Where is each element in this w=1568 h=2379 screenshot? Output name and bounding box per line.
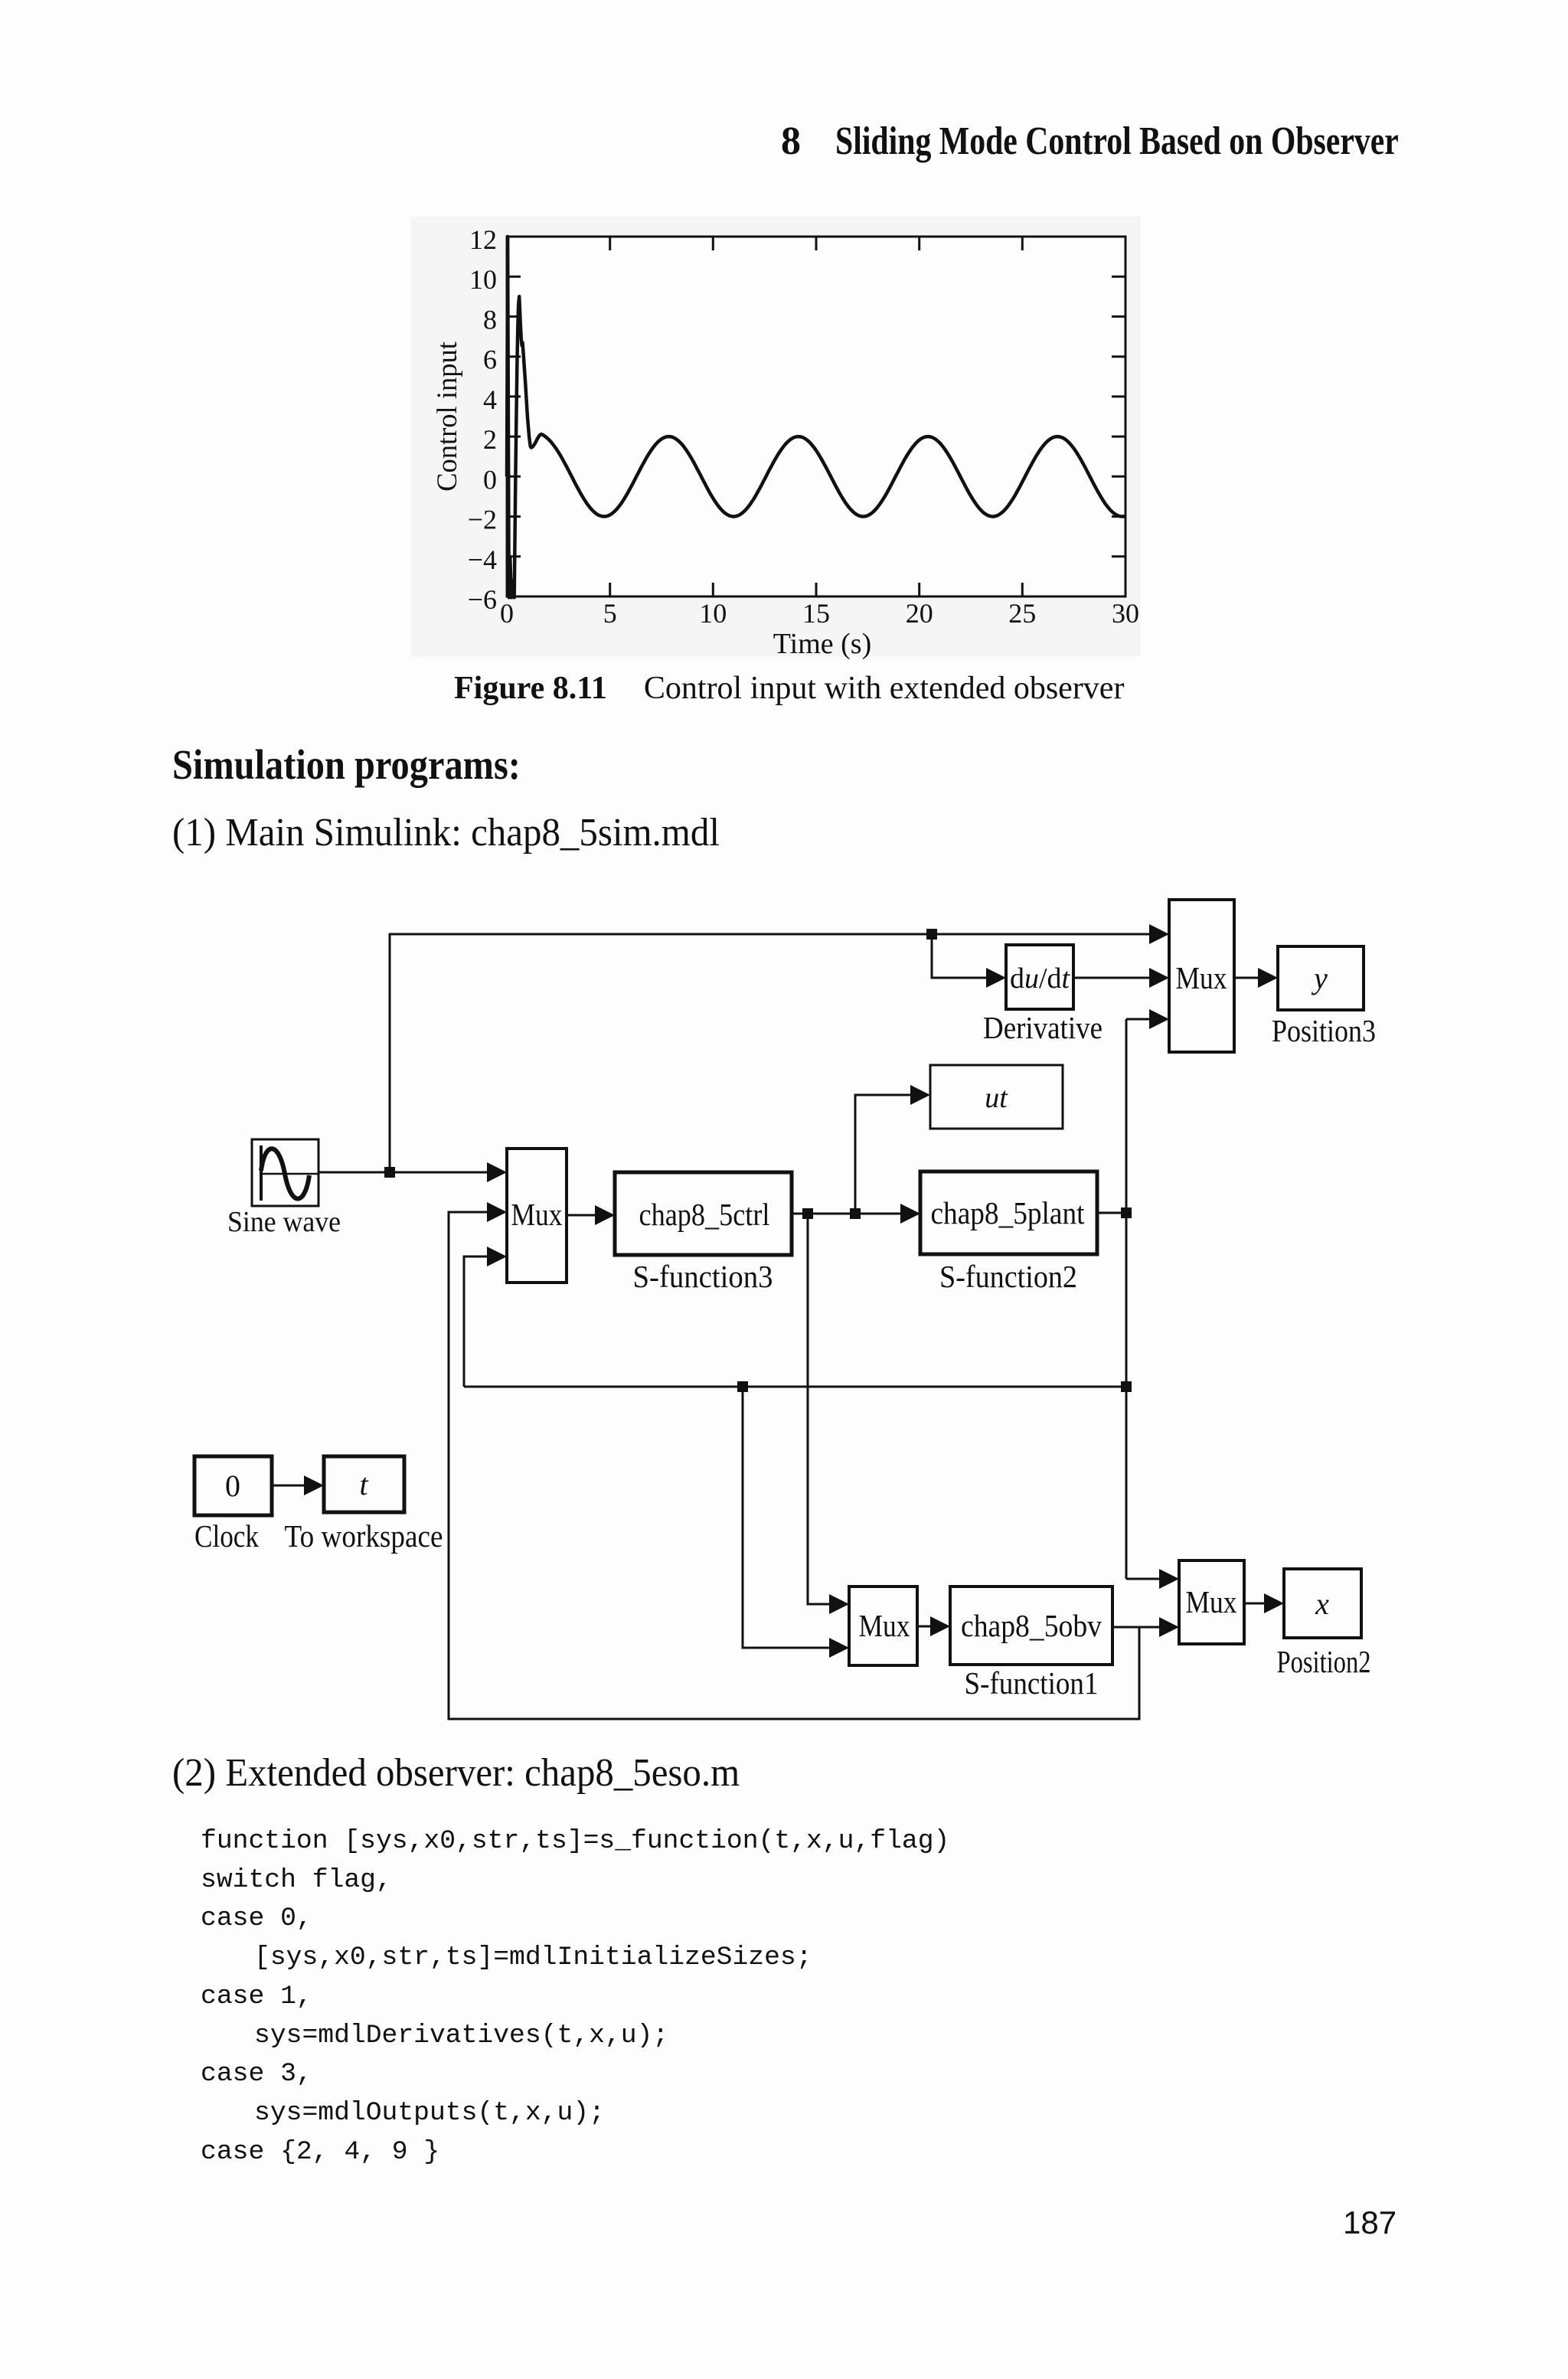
block: Position3 scope y	[1278, 946, 1364, 1010]
node: ctrl output branch to observer mux	[802, 1208, 813, 1219]
node: ctrl output branch to ut scope	[850, 1208, 861, 1219]
svg-text:ut: ut	[985, 1082, 1008, 1114]
svg-text:−2: −2	[468, 505, 497, 535]
block: Mux4 bottom output mux	[1179, 1560, 1244, 1644]
sine wave icon	[260, 1145, 263, 1201]
plot axes box	[507, 237, 1125, 596]
svg-text:Mux: Mux	[859, 1608, 910, 1643]
block: Mux2 observer input mux	[849, 1587, 917, 1665]
svg-text:4: 4	[483, 384, 497, 415]
wire: right vertical bus	[1125, 1019, 1128, 1579]
svg-text:chap8_5obv: chap8_5obv	[961, 1608, 1102, 1643]
svg-text:12: 12	[469, 224, 497, 255]
svg-text:−4: −4	[468, 544, 497, 575]
wire: Clock output to To workspace	[272, 1485, 317, 1487]
svg-text:S-function1: S-function1	[965, 1665, 1099, 1701]
svg-text:To workspace: To workspace	[285, 1518, 443, 1554]
block: du/dt Derivative	[1006, 945, 1073, 1009]
svg-text:Mux: Mux	[1176, 960, 1227, 995]
node: bus junction with feedback line	[1121, 1381, 1132, 1392]
node: top wire branch to derivative	[926, 929, 937, 940]
svg-text:Control input: Control input	[431, 341, 462, 492]
block: chap8_5plant S-function2	[920, 1172, 1097, 1254]
svg-text:6: 6	[483, 345, 497, 375]
axis ticks	[507, 237, 1125, 596]
wire: observer output feedback loop to Mux1 input 2	[449, 1212, 1139, 1719]
svg-text:25: 25	[1008, 598, 1036, 629]
svg-text:S-function3: S-function3	[633, 1259, 773, 1294]
svg-text:10: 10	[699, 598, 727, 629]
wire: ctrl branch down to Mux2 input 1	[808, 1214, 847, 1604]
wire: feedback branch down to Mux2 input 2	[743, 1387, 847, 1648]
wire: Mux3 output to Position3	[1234, 977, 1276, 979]
svg-text:chap8_5plant: chap8_5plant	[931, 1195, 1086, 1230]
block: Mux3 top output mux	[1169, 900, 1234, 1052]
svg-text:10: 10	[469, 264, 497, 295]
svg-text:Position3: Position3	[1272, 1013, 1376, 1048]
wire: du/dt output to Mux3 input 2	[1073, 977, 1167, 979]
wire: sine wave output to Mux1 input 1	[318, 1172, 505, 1174]
svg-text:chap8_5ctrl: chap8_5ctrl	[639, 1197, 770, 1232]
wire: chap8_5obv output to Mux4 input 2	[1112, 1626, 1177, 1629]
svg-text:0: 0	[500, 598, 514, 629]
node: feedback branch junction	[737, 1381, 748, 1392]
block: Clock	[194, 1456, 272, 1515]
wire: Mux2 output to chap8_5obv	[917, 1626, 948, 1628]
control input curve	[507, 237, 1125, 597]
figure scan background	[411, 217, 1141, 657]
page number	[1343, 2207, 1396, 2239]
svg-text:t: t	[359, 1467, 368, 1502]
heading: (2) Extended observer	[172, 1753, 776, 1793]
wire: plant output stub to right bus	[1097, 1212, 1126, 1214]
svg-text:y: y	[1311, 961, 1328, 995]
svg-text:Sine wave: Sine wave	[227, 1206, 341, 1238]
wire: feedback line across	[464, 1386, 1126, 1388]
svg-text:20: 20	[906, 598, 933, 629]
svg-text:Clock: Clock	[194, 1518, 259, 1554]
wire: Mux1 output to chap8_5ctrl	[567, 1214, 612, 1217]
svg-text:Mux: Mux	[1186, 1584, 1237, 1619]
figure caption	[454, 672, 1124, 704]
svg-text:S-function2: S-function2	[939, 1259, 1077, 1294]
svg-text:Time (s): Time (s)	[773, 628, 871, 660]
svg-text:5: 5	[603, 598, 617, 629]
svg-text:15: 15	[802, 598, 830, 629]
block: Sine wave source	[252, 1139, 318, 1206]
svg-text:−6: −6	[468, 584, 497, 615]
svg-text:0: 0	[483, 464, 497, 495]
running head	[781, 122, 1537, 162]
block: Mux1 controller input mux	[507, 1149, 567, 1283]
block: chap8_5obv S-function1	[950, 1587, 1112, 1665]
svg-text:0: 0	[225, 1469, 240, 1503]
wire: bus top into Mux3 input 3	[1126, 1018, 1167, 1021]
svg-text:2: 2	[483, 424, 497, 455]
wire: Mux4 output to Position2	[1244, 1603, 1282, 1605]
wire: chap8_5ctrl output to chap8_5plant	[792, 1213, 918, 1215]
wire: branch up and across top to Mux3 input 1	[390, 934, 1167, 1172]
matlab code listing	[201, 1822, 949, 2171]
block: To workspace t	[324, 1456, 404, 1512]
node: plant output junction on bus	[1121, 1207, 1132, 1218]
svg-text:8: 8	[483, 304, 497, 335]
svg-text:30: 30	[1112, 598, 1139, 629]
block: ut scope	[930, 1065, 1063, 1129]
x tick labels	[500, 598, 1139, 629]
heading: Simulation programs	[172, 743, 568, 786]
node: sine output branch junction	[384, 1167, 395, 1178]
heading: (1) Main Simulink	[172, 813, 754, 853]
y tick labels	[468, 224, 497, 615]
wire: feedback up into Mux1 input 3	[464, 1256, 505, 1387]
wire: bus bottom into Mux4 input 1	[1126, 1578, 1177, 1580]
svg-text:du/dt: du/dt	[1010, 962, 1070, 995]
svg-text:Mux: Mux	[511, 1197, 563, 1232]
figure 8.11 chart	[398, 211, 1164, 670]
block: Position2 scope x	[1284, 1569, 1361, 1638]
block: chap8_5ctrl S-function3	[615, 1172, 792, 1255]
svg-text:x: x	[1315, 1587, 1329, 1621]
simulink block diagram	[176, 884, 1447, 1750]
svg-text:Derivative: Derivative	[983, 1010, 1102, 1045]
svg-text:Position2: Position2	[1277, 1644, 1371, 1679]
wire: branch down into du/dt	[932, 934, 1004, 978]
wire: branch up into ut scope	[855, 1095, 928, 1214]
